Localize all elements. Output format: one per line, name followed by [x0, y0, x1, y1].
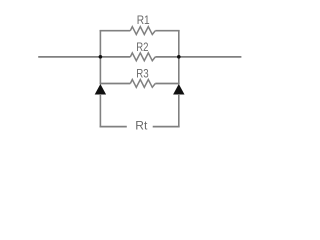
wire: bracket bottom right segment: [153, 126, 180, 128]
wire: left bracket vertical: [99, 94, 101, 127]
svg-text:R3: R3: [136, 67, 149, 81]
wire: right vertical bus: [178, 30, 180, 84]
resistor R2: [130, 53, 155, 61]
svg-text:R1: R1: [137, 13, 150, 27]
wire: main horizontal left lead: [38, 56, 130, 58]
resistor R1: [130, 27, 155, 35]
wire: R1 branch left lead: [100, 30, 131, 32]
wire: R3 branch right lead: [155, 83, 179, 85]
arrow right (current indicator): [173, 84, 184, 95]
wire: left vertical bus: [99, 30, 101, 84]
wire: main horizontal right lead: [155, 56, 241, 58]
junction left node: [99, 55, 103, 59]
svg-text:Rt: Rt: [135, 119, 148, 133]
svg-text:R2: R2: [136, 40, 148, 54]
resistor R3: [130, 80, 155, 88]
wire: R3 branch left lead: [100, 83, 131, 85]
junction right node: [177, 55, 181, 59]
arrow left (current indicator): [95, 84, 106, 95]
wire: right bracket vertical: [178, 94, 180, 127]
wire: bracket bottom left segment: [100, 126, 127, 128]
wire: R1 branch right lead: [155, 30, 179, 32]
